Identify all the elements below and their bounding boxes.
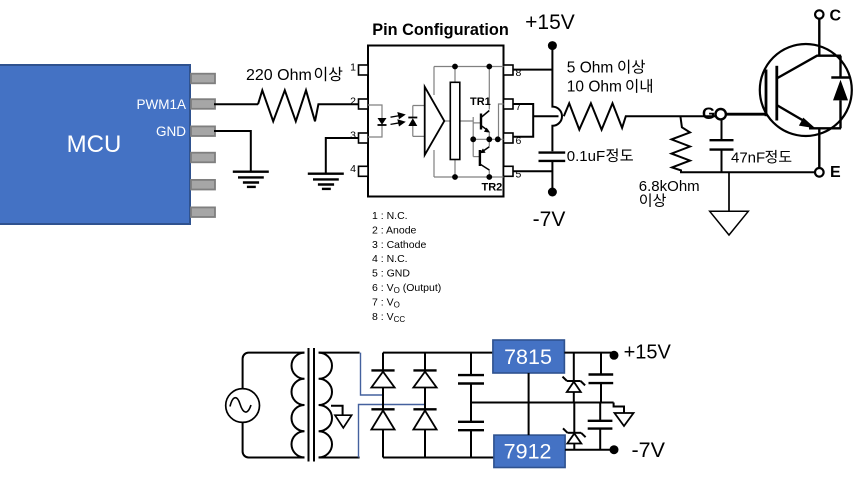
svg-text:PWM1A: PWM1A [136,97,186,112]
ground branch [728,172,730,211]
bottom rail [434,176,504,178]
svg-text:3 : Cathode: 3 : Cathode [372,239,426,251]
transformer T1 secondary [319,353,332,458]
wire resistor to IC pin2 [322,103,359,105]
svg-text:+15V: +15V [525,11,575,34]
blue connector secondary-bottom to bridge [359,405,426,458]
smoothing cap C3 (top) [458,353,484,403]
bridge diode D2 (bottom-left) [371,409,394,457]
middle rail [471,402,614,404]
IGBT body bar [775,66,778,121]
smoothing cap C4 (bottom) [458,403,484,458]
pin7 internal link [499,104,504,139]
ground G1 [233,172,269,187]
collector terminal [818,19,820,56]
svg-text:3: 3 [350,130,356,142]
pin list text [372,210,441,324]
gate terminal circle [716,109,726,119]
svg-text:-7V: -7V [632,438,666,462]
amplifier triangle [425,87,445,155]
secondary wires [319,352,360,354]
svg-text:MCU: MCU [67,131,122,158]
svg-text:G: G [702,104,715,123]
svg-text:7815: 7815 [504,345,552,369]
-7V terminal dot (bottom) [610,445,619,454]
IC body [368,46,504,197]
svg-text:1: 1 [350,62,356,74]
output row [473,138,503,140]
IGBT circle [760,44,852,136]
resistor R2 5 Ohm [564,103,631,129]
label 이상 (2nd line) [640,193,666,207]
svg-text:4 : N.C.: 4 : N.C. [372,253,408,265]
MCU pin stubs (gray) [191,74,215,217]
bottom rail to emitter [680,171,815,173]
cap C5 [589,353,614,403]
regulator U2 7815 [493,340,565,373]
ground G5 (open triangle) [615,413,634,426]
freewheel diode D5 [839,56,841,78]
bottom rail [383,457,494,459]
svg-text:7: 7 [516,101,522,113]
LED D-in (filled) [378,118,387,125]
resistor R1 220 Ohm [258,90,322,121]
internal resistor [450,82,460,159]
top rail [383,352,493,354]
+15V terminal dot (bottom) [610,351,619,360]
transformer core [309,348,315,462]
transistor TR1 [481,111,489,131]
supply vertical wire [552,46,562,152]
photodiode (filled, pointing up) [408,118,417,126]
input LED bracket [368,105,382,118]
svg-text:220 Ohm: 220 Ohm [246,67,312,84]
bridge diode D1 (top-left) [371,353,394,410]
svg-text:6.8kOhm: 6.8kOhm [639,178,700,195]
junction dots [452,64,501,180]
amp power stubs [433,67,435,178]
svg-text:4: 4 [350,163,356,175]
photodiode bracket [413,106,425,118]
regulator U3 7912 [494,435,565,467]
light arrows [391,113,405,125]
wire IC pin3 to ground [326,138,359,173]
blue connector secondary-top to bridge [361,353,384,395]
gate wire into IGBT [726,113,766,116]
primary wires [243,353,305,389]
capacitor C2 47nF [721,118,723,140]
svg-text:2: 2 [350,96,356,108]
svg-text:7 : VO: 7 : VO [372,296,400,309]
svg-text:GND: GND [156,124,186,139]
zener Z2 [563,403,586,450]
transformer T1 primary [292,353,305,458]
transistor TR2 [480,147,489,170]
TR1 collector/emitter verticals [488,67,490,110]
wire resistor to gate [631,115,716,117]
AC source V1 [226,389,260,423]
svg-text:-7V: -7V [533,208,566,231]
ground G4 (open triangle) [335,415,352,428]
svg-text:7912: 7912 [504,440,552,464]
collector lead [778,56,842,78]
wire pin5 to supply line [513,170,552,172]
emitter terminal [818,128,820,168]
wire MCU GND to ground [214,131,251,171]
ground G3 (open triangle) [710,211,749,235]
top rail [434,66,504,68]
ground G5 stub [614,403,624,414]
svg-text:5 Ohm: 5 Ohm [567,60,614,77]
+15V output rail [564,352,614,354]
resistor stubs [454,67,456,178]
resistor R3 6.8kOhm vertical [672,116,691,172]
capacitor C1 0.1uF plates [539,151,566,153]
ground G2 [308,174,344,189]
svg-text:10 Ohm: 10 Ohm [567,79,622,96]
svg-text:47nF: 47nF [731,149,765,166]
cap C6 [588,403,613,450]
svg-text:6 : VO (Output): 6 : VO (Output) [372,282,441,295]
7912 ground lead [528,403,530,436]
bridge diode D4 (bottom-right) [413,409,436,457]
svg-text:8 : VCC: 8 : VCC [372,311,405,324]
center tap to ground [331,406,343,415]
svg-text:2 : Anode: 2 : Anode [372,224,417,236]
7815 ground lead [528,373,530,403]
output wire with hop [533,115,558,117]
svg-text:5 : GND: 5 : GND [372,268,410,280]
pin numbers right [516,67,522,180]
bridge diode D3 (top-right) [413,353,436,410]
amp output to bases [444,117,473,157]
svg-text:+15V: +15V [624,342,672,364]
TR2 emitter/collector verticals [488,139,490,146]
IC interior grey wiring [368,67,504,178]
svg-text:Pin Configuration: Pin Configuration [372,21,509,39]
svg-text:0.1uF: 0.1uF [567,148,605,165]
svg-text:1 : N.C.: 1 : N.C. [372,210,408,222]
emitter lead [778,106,805,122]
wire pin8 to +15V [513,69,552,71]
wire pin7/pin6 bracket [513,104,533,137]
pin numbers left [350,62,356,175]
IC pins left [359,65,369,176]
svg-text:TR2: TR2 [482,182,503,194]
MCU block U-MCU [0,65,190,224]
IC pins right [504,65,514,176]
svg-text:5: 5 [516,168,522,180]
svg-text:C: C [830,8,842,25]
wire PWM1A to resistor [214,103,258,105]
IGBT gate bar [765,70,768,117]
-7V terminal dot [548,188,557,197]
svg-text:E: E [830,164,841,181]
zener Z1 [563,353,586,403]
svg-text:TR1: TR1 [470,96,491,108]
-7V output rail [565,449,614,451]
+15V terminal dot [548,41,557,50]
